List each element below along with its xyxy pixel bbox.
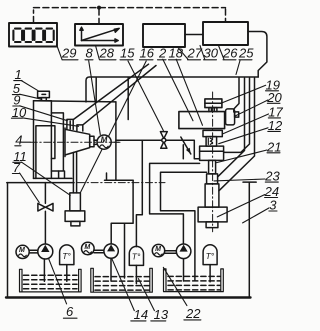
sensor 10: [77, 125, 83, 131]
leader 14: [112, 259, 134, 311]
section line (dash-dot): [78, 182, 166, 184]
temperature sensor T3: [203, 245, 217, 265]
svg-text:20: 20: [266, 90, 282, 105]
stem: [209, 160, 216, 174]
spindle cone 4: [65, 128, 90, 157]
leader 12: [219, 128, 268, 144]
leader 1 to cap: [21, 81, 38, 91]
test head block 2: [179, 112, 225, 129]
svg-text:T°: T°: [132, 252, 141, 262]
wall drop x128: [127, 78, 129, 120]
sleeve 23: [207, 174, 218, 184]
pump 1 drop pipe: [43, 259, 45, 281]
valve 7 (bowtie): [38, 203, 53, 211]
pump 2 drop pipe: [110, 258, 112, 281]
recorder unit 28 (graph box): [75, 24, 123, 46]
svg-text:25: 25: [238, 46, 254, 61]
oil tank 2: [91, 268, 153, 292]
svg-text:22: 22: [185, 306, 201, 321]
load block 11: [70, 193, 81, 211]
stand baseline: [6, 296, 251, 298]
shaft to drive motor: [94, 140, 97, 144]
spindle centerline: [21, 141, 31, 143]
svg-text:29: 29: [61, 46, 76, 61]
inner box right wall: [115, 102, 117, 180]
pump 3: [176, 244, 191, 259]
leader 13: [138, 279, 154, 311]
coupling 3: [165, 251, 177, 254]
dashed control bus: [34, 8, 226, 23]
oil tank 3: [164, 269, 224, 292]
leader 8 to motor: [89, 61, 101, 135]
leader 6: [49, 259, 67, 304]
leader 2 to test head: [163, 59, 193, 121]
pipe v2 to block 17: [218, 78, 245, 177]
svg-text:8: 8: [86, 46, 94, 61]
motor 3: [152, 244, 164, 256]
right leaders: [214, 85, 269, 223]
svg-text:15: 15: [120, 46, 135, 61]
coupling 1: [29, 250, 38, 253]
inner box bottom: [105, 173, 134, 180]
svg-text:14: 14: [134, 307, 148, 322]
svg-text:26: 26: [222, 46, 238, 61]
filler cap 1/5: [38, 91, 50, 97]
leader 9: [20, 106, 68, 121]
leader to 26: [219, 46, 225, 60]
loading cap 19: [205, 99, 222, 108]
stub line: [182, 145, 184, 159]
leader 22: [163, 267, 187, 305]
coupling 12: [206, 137, 217, 147]
svg-text:10: 10: [12, 105, 27, 120]
cylinder block 21: [200, 146, 224, 160]
leader 20: [235, 100, 268, 116]
guide rod 24 upper: [205, 184, 219, 207]
leader 16 long diagonal to load block: [80, 61, 146, 193]
leader 18 to test head: [176, 59, 202, 125]
drive motor 8: [97, 135, 111, 149]
leader 7 to valve: [20, 173, 40, 202]
leader 5: [20, 94, 42, 99]
front plate 4: [51, 113, 63, 171]
control unit 26: [203, 22, 248, 45]
svg-text:T°: T°: [206, 251, 215, 261]
leader to 29: [57, 45, 63, 60]
leader 11 to load block: [22, 162, 71, 195]
coupling 2: [94, 250, 104, 252]
leader to 30: [200, 46, 205, 60]
enclosure bottom left line: [7, 182, 74, 184]
svg-text:12: 12: [268, 118, 283, 133]
enclosure top edge with right corner: [86, 77, 258, 102]
pressure line with valve 15: [116, 140, 200, 159]
leader 19: [222, 85, 266, 103]
left label column: [12, 67, 27, 175]
motor 2: [82, 242, 95, 255]
sensor box 20: [226, 109, 235, 125]
leader 15 to valve: [128, 61, 163, 131]
machine base line: [34, 171, 72, 178]
motor 1: [16, 245, 29, 258]
flow arrow: [181, 137, 191, 154]
stand post 3: [243, 182, 256, 297]
svg-text:3: 3: [269, 198, 277, 213]
pipe v1 to sensor box 20: [234, 78, 239, 113]
sensor wire to instruments: [73, 64, 148, 119]
temperature sensor T2: [129, 246, 143, 265]
loading shaft (double line): [73, 152, 76, 193]
return pipe into tank 2: [124, 223, 126, 278]
valve 15 (vertical bowtie): [160, 132, 167, 149]
right label column: [264, 77, 284, 212]
svg-text:13: 13: [154, 307, 169, 322]
leader 10: [22, 118, 79, 127]
oil tank 1: [20, 269, 82, 292]
leader to 28: [96, 46, 100, 60]
sensor 9: [67, 119, 73, 129]
pump 3 drop pipe: [183, 259, 185, 281]
pipe to pump 3: [150, 163, 200, 244]
leader 17: [223, 114, 269, 134]
leader 24: [217, 195, 264, 217]
pipe with valve 7 to pump 1: [44, 183, 46, 244]
top label row: [61, 46, 254, 61]
upper bar 17: [203, 130, 222, 136]
temperature sensor T1: [60, 245, 74, 265]
wall drop x96: [95, 78, 97, 102]
inner box top line: [34, 101, 116, 102]
svg-text:1: 1: [15, 67, 22, 82]
svg-text:M: M: [19, 247, 25, 254]
wire between 27 and 26: [185, 34, 203, 36]
pipe to temperature sensor 14: [136, 140, 142, 246]
svg-text:28: 28: [99, 46, 115, 61]
pump 6: [38, 244, 53, 259]
assembly centerline: [212, 92, 214, 232]
wire 25 from unit 26 down right side: [248, 32, 267, 78]
suction pipe to pump 2: [111, 180, 133, 244]
bottom labels: [66, 304, 201, 322]
leader from 25 to pipe bundle: [236, 61, 240, 75]
svg-text:M: M: [101, 136, 108, 145]
svg-text:23: 23: [264, 169, 280, 184]
pipe v3 to block 21: [224, 78, 250, 152]
leader to 27: [178, 47, 189, 59]
stand left wall: [7, 183, 9, 298]
svg-text:M: M: [155, 246, 161, 253]
cone end cap: [90, 136, 94, 146]
leader 21: [216, 150, 267, 163]
leader 23: [214, 179, 265, 181]
spindle housing column: [34, 101, 52, 179]
control unit 27: [143, 24, 185, 47]
lower block 24: [198, 207, 227, 222]
svg-text:2: 2: [158, 46, 167, 61]
bus junction node: [97, 6, 101, 10]
svg-text:M: M: [84, 244, 90, 251]
svg-text:16: 16: [140, 46, 155, 61]
pump 2: [104, 244, 118, 258]
svg-text:T°: T°: [62, 251, 71, 261]
svg-text:30: 30: [204, 46, 219, 61]
svg-text:18: 18: [169, 46, 184, 61]
svg-text:4: 4: [15, 132, 22, 147]
digital display unit 29: [9, 23, 57, 47]
return pipe into tank 3: [161, 172, 207, 280]
housing inner ledge: [36, 126, 55, 179]
sensor wire to instruments: [83, 66, 156, 125]
svg-text:21: 21: [266, 139, 281, 154]
leader 3: [243, 208, 269, 223]
pipe v4 to sleeve 23: [219, 78, 255, 191]
svg-text:6: 6: [66, 304, 74, 319]
